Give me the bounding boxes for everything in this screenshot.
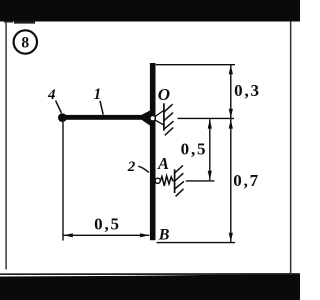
svg-text:0,3: 0,3 [234, 81, 261, 100]
A support hatching [175, 165, 183, 173]
arrow down 0,3 bottom [229, 109, 233, 118]
top black scan bar [0, 0, 300, 22]
leader for label 1 [100, 101, 103, 115]
svg-text:O: O [158, 85, 170, 104]
beam OB (vertical member) [150, 63, 156, 240]
leader for label 2 [138, 166, 149, 172]
left page border [5, 22, 6, 270]
A support wall bar [174, 169, 176, 193]
right page border [290, 22, 292, 275]
top bar ragged smudge [14, 21, 35, 24]
extension line A level [186, 180, 215, 182]
extension line B level [157, 242, 236, 244]
O support triangle [155, 110, 164, 116]
svg-text:B: B [158, 227, 170, 244]
arrow up 0,7 top [229, 119, 233, 128]
O support hatching [164, 104, 173, 112]
leader for label 4 [56, 101, 62, 113]
pin at A [155, 178, 160, 183]
extension line top (beam top) [156, 64, 235, 66]
arrow left bottom 0,5 [64, 233, 73, 237]
dimension line right main [230, 65, 232, 242]
svg-text:0,5: 0,5 [181, 140, 208, 159]
arrow down 0,7 bottom [229, 233, 233, 242]
extension line O level [178, 117, 235, 119]
dimension line inner 0,5 [209, 119, 211, 180]
svg-text:A: A [157, 154, 169, 173]
task number circle [14, 30, 37, 53]
svg-text:8: 8 [21, 34, 29, 51]
arrow right bottom 0,5 [140, 233, 149, 237]
arrow up 0,3 top [229, 65, 233, 74]
svg-text:0,5: 0,5 [94, 215, 121, 234]
svg-text:1: 1 [94, 86, 102, 103]
O support wall bar [163, 103, 165, 130]
bottom thin rule above bar [0, 273, 300, 275]
spring 2 [160, 176, 174, 186]
rod taper bracket at O [142, 110, 151, 125]
svg-text:0,7: 0,7 [233, 171, 260, 190]
rod 1 (horizontal member) [62, 115, 150, 120]
arrow down 0,5 inner bottom [208, 171, 212, 180]
svg-text:4: 4 [47, 87, 56, 103]
ball joint 4 (point mass) [58, 113, 67, 122]
dimension line bottom 0,5 [64, 234, 150, 236]
pin at O [150, 116, 155, 121]
bottom black scan bar [0, 274, 300, 300]
extension line below ball 4 [62, 122, 64, 241]
arrow up 0,5 inner top [208, 119, 212, 128]
svg-text:2: 2 [127, 159, 136, 175]
